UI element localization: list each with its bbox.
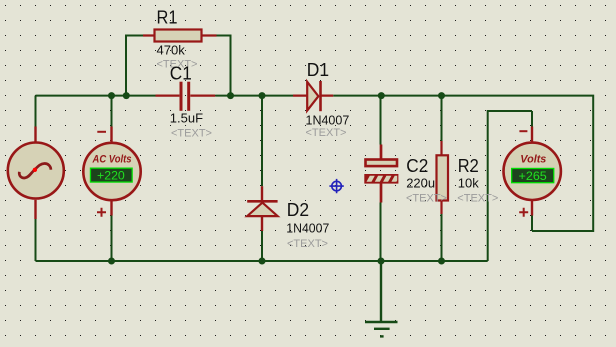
origin marker xyxy=(329,179,343,193)
diode D1 xyxy=(293,81,333,111)
svg-text:Volts: Volts xyxy=(520,153,546,165)
svg-text:<TEXT>: <TEXT> xyxy=(171,127,212,139)
junction top D2 xyxy=(259,92,266,99)
wire meter1 bottom xyxy=(111,216,113,262)
wire D2 top xyxy=(261,96,263,187)
wire R1 right vertical xyxy=(216,36,230,96)
wire source bottom vertical xyxy=(35,219,37,261)
wire meter2 bottom stub xyxy=(531,216,533,232)
svg-text:D1: D1 xyxy=(307,60,329,80)
svg-text:<TEXT>: <TEXT> xyxy=(457,193,498,205)
wire R2 top xyxy=(441,96,443,141)
svg-text:1.5uF: 1.5uF xyxy=(170,111,203,126)
wire top rail left segment xyxy=(36,95,156,97)
wire top rail right segment xyxy=(333,96,593,231)
wire D2 bottom xyxy=(261,231,263,261)
voltmeter AC Volts xyxy=(83,127,140,217)
junction top R1 left xyxy=(123,92,130,99)
junction top R2 xyxy=(438,92,445,99)
wire R1 left vertical xyxy=(126,36,144,96)
wire meter1 top xyxy=(111,96,113,127)
junction top R1 right xyxy=(227,92,234,99)
resistor R2 xyxy=(437,141,449,214)
wire meter2 top loop xyxy=(488,111,532,261)
svg-text:C2: C2 xyxy=(406,156,428,176)
svg-text:220u: 220u xyxy=(406,175,435,190)
wire C2 bottom xyxy=(380,203,382,262)
svg-text:R2: R2 xyxy=(458,156,479,176)
svg-text:AC Volts: AC Volts xyxy=(92,153,132,165)
svg-text:<TEXT>: <TEXT> xyxy=(287,238,328,250)
resistor R1 xyxy=(143,30,217,42)
svg-text:R1: R1 xyxy=(157,8,178,28)
capacitor C1 xyxy=(156,82,216,111)
junction bottom D2 xyxy=(259,258,266,265)
wire meter2 top stub xyxy=(531,111,533,127)
wire C2 top xyxy=(380,96,382,145)
svg-text:C1: C1 xyxy=(170,63,192,83)
svg-text:1N4007: 1N4007 xyxy=(306,113,350,128)
svg-text:<TEXT>: <TEXT> xyxy=(306,127,347,139)
svg-text:<TEXT>: <TEXT> xyxy=(406,193,447,205)
wire R2 bottom xyxy=(441,214,443,261)
wire source top vertical xyxy=(35,96,37,127)
svg-text:10k: 10k xyxy=(458,175,479,190)
svg-text:+220: +220 xyxy=(97,169,125,183)
junction top C2 xyxy=(378,92,385,99)
wire bottom rail xyxy=(36,260,488,262)
svg-text:D2: D2 xyxy=(287,200,309,220)
AC source V1 xyxy=(8,127,64,220)
junction bottom R2 xyxy=(438,258,445,265)
ground xyxy=(365,261,398,336)
voltmeter Volts xyxy=(504,127,561,217)
svg-text:470k: 470k xyxy=(157,43,186,58)
junction top meter1 xyxy=(108,92,115,99)
svg-text:1N4007: 1N4007 xyxy=(286,221,329,236)
junction bottom C2 ground xyxy=(378,258,385,265)
wire top rail mid segment xyxy=(215,95,293,97)
junction bottom meter1 xyxy=(108,258,115,265)
svg-text:+265: +265 xyxy=(519,169,548,183)
capacitor C2 xyxy=(364,145,398,203)
diode D2 xyxy=(247,186,277,231)
